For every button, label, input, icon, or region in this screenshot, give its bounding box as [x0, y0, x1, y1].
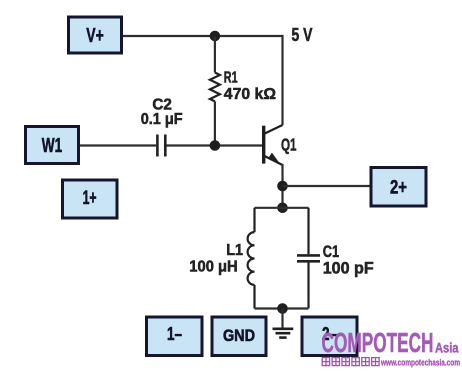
terminal box 1-	[147, 317, 203, 356]
capacitor C1	[297, 208, 320, 309]
wire C2 to base	[167, 144, 263, 146]
svg-text:1+: 1+	[83, 188, 97, 209]
resistor R1	[210, 73, 220, 102]
label L1	[226, 242, 243, 259]
label C2	[152, 96, 172, 113]
svg-text:L1: L1	[226, 242, 243, 259]
capacitor C2	[157, 135, 165, 157]
label R1	[224, 69, 238, 86]
label C1	[323, 242, 339, 261]
wire ground stem	[281, 309, 283, 328]
svg-text:V+: V+	[86, 25, 104, 47]
terminal box V+	[69, 17, 122, 53]
value 0.1 μF	[141, 111, 183, 128]
label Q1	[281, 134, 297, 154]
wire collector vertical	[281, 35, 283, 125]
terminal box GND	[212, 317, 266, 356]
wire W1 to C2	[78, 144, 156, 146]
value 100 μH	[189, 259, 237, 276]
wire emitter down	[281, 164, 283, 208]
logo Asia	[435, 341, 459, 356]
svg-text:5 V: 5 V	[292, 25, 313, 45]
logo COMPOTECH	[322, 327, 434, 358]
svg-text:470 kΩ: 470 kΩ	[224, 86, 276, 103]
wire tank bottom	[255, 307, 309, 309]
transistor Q1	[264, 125, 283, 165]
wire R1 top lead	[214, 36, 216, 73]
wire to 2+ box	[283, 185, 372, 187]
terminal box 2+	[371, 168, 426, 207]
terminal box W1	[26, 127, 79, 164]
inductor L1	[248, 208, 255, 309]
node junction tank bottom	[277, 303, 288, 314]
svg-text:www.compotechasia.com: www.compotechasia.com	[380, 358, 460, 368]
wire R1 bottom lead	[214, 101, 216, 145]
wire V+ to collector rail	[122, 35, 283, 37]
node junction at R1 top	[210, 31, 221, 42]
svg-text:100 μH: 100 μH	[189, 259, 237, 276]
svg-text:1–: 1–	[167, 324, 182, 344]
label 5 V	[292, 25, 313, 45]
terminal box 1+	[63, 180, 118, 218]
node junction tank top	[277, 203, 288, 214]
svg-text:COMPOTECH: COMPOTECH	[322, 327, 434, 358]
logo url text	[380, 358, 460, 368]
svg-text:Q1: Q1	[281, 134, 297, 154]
ground	[273, 329, 294, 338]
value 470 kΩ	[224, 86, 276, 103]
logo CJK tagline glyph blocks	[322, 358, 379, 366]
svg-text:W1: W1	[42, 135, 62, 157]
svg-text:0.1 μF: 0.1 μF	[141, 111, 183, 128]
node junction to 2+	[277, 181, 288, 192]
svg-text:2+: 2+	[390, 178, 407, 199]
value 100 pF	[323, 259, 374, 278]
svg-text:Asia: Asia	[435, 341, 459, 356]
wire tank top	[255, 207, 309, 209]
svg-text:R1: R1	[224, 69, 238, 86]
svg-text:100 pF: 100 pF	[323, 259, 374, 278]
terminal box 2-	[302, 317, 357, 356]
node junction base/R1	[210, 140, 221, 151]
svg-text:GND: GND	[223, 327, 255, 345]
